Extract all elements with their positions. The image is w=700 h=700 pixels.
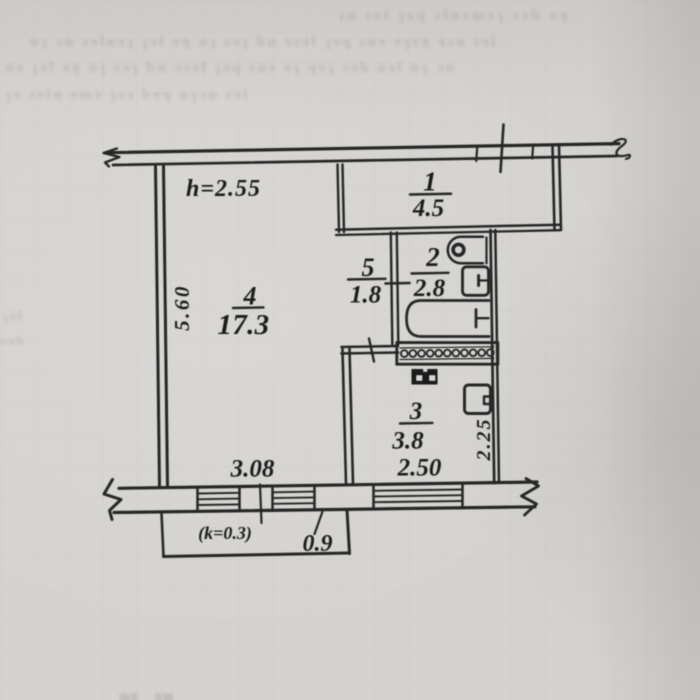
svg-text:ᴎɘ ɿɘƚ ɘʞ ɒɿ ƨɘɿ bᴎ ɘƨɘƚ ɿɘq ƨ: ᴎɘ ɿɘƚ ɘʞ ɒɿ ƨɘɿ bᴎ ɘƨɘƚ ɿɘq ƨᴎɘ ɘɿ ʞɘɿ … bbox=[5, 60, 457, 76]
svg-text:4: 4 bbox=[243, 282, 257, 311]
svg-text:2.25: 2.25 bbox=[473, 418, 495, 462]
svg-text:▄▖ ▗▄: ▄▖ ▗▄ bbox=[120, 687, 175, 700]
svg-text:4.5: 4.5 bbox=[412, 195, 444, 222]
svg-text:ıᴎ ƨɘƚ ɿɘq ƨƚᴎɘmɘɿ ƨɘb ɘʞ: ıᴎ ƨɘƚ ɿɘq ƨƚᴎɘmɘɿ ƨɘb ɘʞ bbox=[340, 8, 571, 24]
svg-text:1: 1 bbox=[423, 167, 437, 197]
svg-text:17.3: 17.3 bbox=[218, 309, 270, 341]
svg-text:ɿɘ ƨɘƚᴎ ɘmɘ ɿƨɘ bɘʞ ɒɿɔᴎ ƨɘƚ: ɿɘ ƨɘƚᴎ ɘmɘ ɿƨɘ bɘʞ ɒɿɔᴎ ƨɘƚ bbox=[5, 87, 250, 103]
svg-text:3.8: 3.8 bbox=[391, 428, 424, 455]
svg-text:(k=0.3): (k=0.3) bbox=[198, 523, 252, 544]
svg-text:0.9: 0.9 bbox=[303, 531, 333, 557]
svg-text:ɒɿ ɔᴎ ƨɘƚᴎɘɿ ɿɘƚ ɘʞ ɒɿ ƨɘɿ bᴎ: ɒɿ ɔᴎ ƨɘƚᴎɘɿ ɿɘƚ ɘʞ ɒɿ ƨɘɿ bᴎ ɘƨɘƚ ɿɘq ƨ… bbox=[30, 34, 498, 50]
svg-text:ƨɘb: ƨɘb bbox=[0, 334, 25, 349]
svg-text:h=2.55: h=2.55 bbox=[186, 176, 261, 202]
svg-text:5: 5 bbox=[362, 253, 375, 282]
svg-text:2: 2 bbox=[425, 242, 440, 272]
svg-text:5.60: 5.60 bbox=[170, 284, 194, 331]
svg-text:3.08: 3.08 bbox=[230, 456, 275, 483]
svg-text:3: 3 bbox=[409, 398, 423, 425]
svg-text:2.8: 2.8 bbox=[413, 275, 446, 302]
svg-text:2.50: 2.50 bbox=[397, 455, 442, 482]
svg-text:1.8: 1.8 bbox=[350, 282, 382, 309]
svg-text:ɿɘƚ: ɿɘƚ bbox=[2, 309, 24, 324]
